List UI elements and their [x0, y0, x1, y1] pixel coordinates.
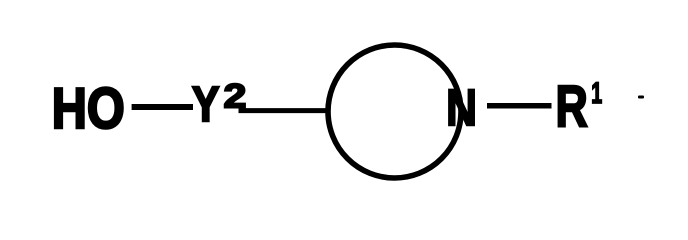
bond N to R1: [487, 103, 552, 109]
bond Y2 to ring: [239, 108, 326, 113]
svg-text:N: N: [446, 79, 477, 136]
svg-text:Y: Y: [192, 77, 219, 132]
svg-text:R: R: [556, 75, 588, 140]
bond HO to Y2: [132, 104, 193, 110]
svg-text:1: 1: [591, 77, 602, 110]
stray scan speck (small dash at right): [638, 96, 644, 99]
ring (unlabeled cyclic group circle): [328, 45, 461, 178]
svg-text:HO: HO: [52, 77, 125, 141]
